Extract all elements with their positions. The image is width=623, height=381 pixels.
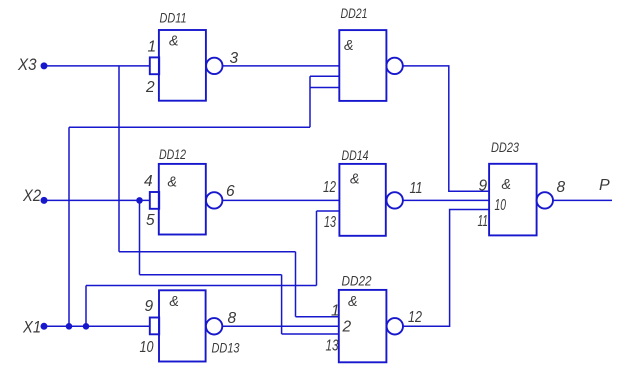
wire X3 to DD22 pin 1 <box>296 316 340 318</box>
wire X1 branch horizontal y=127.2 <box>69 126 310 128</box>
svg-text:1: 1 <box>148 39 157 56</box>
svg-text:2: 2 <box>342 319 352 336</box>
node junction on X2 line <box>136 197 143 204</box>
svg-text:&: & <box>168 174 178 191</box>
svg-text:DD13: DD13 <box>212 341 240 356</box>
svg-text:10: 10 <box>140 339 154 356</box>
wire X3 branch horizontal y=252 <box>119 251 296 253</box>
gate DD12 (2-input NAND) <box>144 147 222 235</box>
svg-text:&: & <box>169 33 179 50</box>
svg-text:12: 12 <box>408 309 422 326</box>
wire X2 to DD22 pin 13 <box>282 333 339 335</box>
gate DD13 (2-input NAND) <box>140 290 240 361</box>
svg-text:P: P <box>599 177 610 194</box>
gate DD23 (3-input NAND) <box>478 140 554 235</box>
wire X3 branch down at x=295.5 <box>295 252 297 317</box>
svg-text:&: & <box>502 176 512 193</box>
gate DD22 (3-input NAND) <box>326 274 403 363</box>
wire X1 branch up at x=86 <box>85 286 87 327</box>
svg-text:&: & <box>169 293 179 310</box>
svg-text:X3: X3 <box>17 55 37 74</box>
node junction on X1 line at x=69 <box>66 323 73 330</box>
svg-text:DD12: DD12 <box>159 147 186 162</box>
svg-text:2: 2 <box>145 79 155 96</box>
wire X1 branch up into DD21 notch <box>309 76 311 127</box>
svg-text:DD22: DD22 <box>342 274 372 289</box>
svg-text:4: 4 <box>144 173 153 190</box>
wire X2 branch down at x=281.6 <box>281 275 283 334</box>
wire DD13 output to DD22 pin 2 <box>222 325 339 327</box>
svg-text:DD23: DD23 <box>491 140 519 155</box>
svg-text:1: 1 <box>331 303 340 320</box>
wire DD23 output line <box>553 199 612 201</box>
node junction on X1 line at x=86 <box>83 323 90 330</box>
wire X3 branch down at x=119 <box>118 66 120 252</box>
wire X2 branch down at x=139.5 <box>139 200 141 274</box>
svg-text:11: 11 <box>410 180 423 197</box>
svg-text:X1: X1 <box>22 318 41 337</box>
svg-text:6: 6 <box>226 183 235 200</box>
svg-text:5: 5 <box>146 212 155 229</box>
svg-text:&: & <box>350 171 360 188</box>
gate DD14 (NAND) <box>323 148 403 236</box>
svg-text:DD11: DD11 <box>160 11 187 26</box>
wire DD12 output to DD14 pin 12 <box>222 199 339 201</box>
svg-text:8: 8 <box>557 179 566 196</box>
svg-text:3: 3 <box>230 50 239 67</box>
svg-text:13: 13 <box>326 338 339 355</box>
wire X1 to DD14 pin 13 <box>317 210 340 212</box>
svg-text:8: 8 <box>228 310 237 327</box>
wire X2 branch horizontal y=274.7 <box>140 274 282 276</box>
svg-text:&: & <box>348 293 358 310</box>
svg-text:DD14: DD14 <box>342 148 369 163</box>
notch of DD21 tied inputs <box>310 76 339 87</box>
svg-text:13: 13 <box>324 214 336 231</box>
wire DD22 output to DD23 pin 11 <box>403 210 489 327</box>
svg-text:&: & <box>344 37 354 54</box>
svg-text:9: 9 <box>479 178 488 195</box>
wire DD11 output to DD21 input <box>223 65 340 67</box>
wire X2 input line <box>44 199 151 201</box>
wire X3 input line <box>44 65 151 67</box>
svg-text:12: 12 <box>323 179 336 196</box>
wire X1 branch up at x=316.5 <box>316 211 318 286</box>
svg-text:X2: X2 <box>22 186 41 205</box>
svg-text:11: 11 <box>478 213 489 230</box>
wire DD14 output to DD23 pin 10 <box>403 199 489 201</box>
input terminal X1 <box>22 318 47 337</box>
gate DD11 (2-input NAND) <box>145 11 223 101</box>
wire X1 input line <box>44 325 151 327</box>
input terminal X2 <box>22 186 47 205</box>
svg-text:DD21: DD21 <box>341 6 368 21</box>
wire DD21 output <box>403 66 489 191</box>
gate DD21 (NAND) <box>339 6 403 101</box>
svg-text:9: 9 <box>145 298 154 315</box>
wire X1 branch up at x=69 <box>68 127 70 326</box>
svg-text:10: 10 <box>495 197 507 214</box>
input terminal X3 <box>17 55 47 74</box>
wire X1 branch horizontal y=285.5 <box>86 285 317 287</box>
